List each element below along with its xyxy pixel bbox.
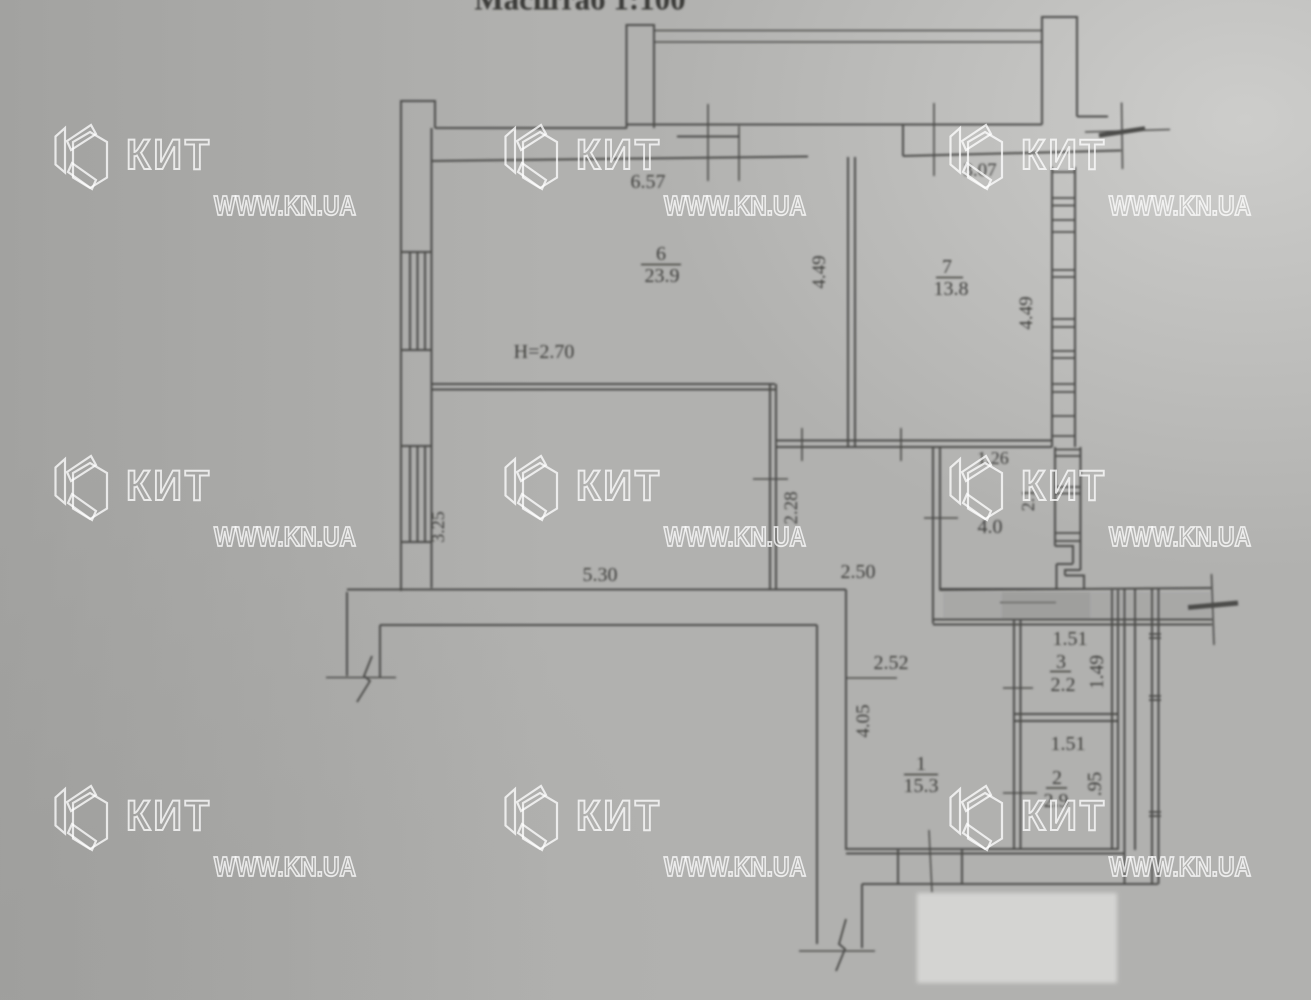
- dim tick x708: [707, 104, 709, 181]
- corridor top wall inner: [380, 625, 817, 677]
- wall between rooms 6 and 5 (double): [432, 384, 776, 390]
- lower-left outer corner: [346, 592, 348, 676]
- entrance door jambs: [898, 850, 962, 884]
- tick x901 on hallway wall: [900, 428, 902, 461]
- shaft cell rungs: [1055, 450, 1081, 542]
- vent rungs: [1149, 634, 1161, 816]
- alcove / room5 right wall (double): [770, 384, 776, 590]
- right vent shaft columns: [1125, 588, 1159, 884]
- shaft jog: [1055, 546, 1073, 589]
- left break dim line: [326, 677, 396, 679]
- svg-text:4.05: 4.05: [853, 704, 874, 737]
- corridor left walls: [816, 625, 818, 944]
- door tick room 3: [1003, 687, 1033, 689]
- door tick room4: [924, 517, 958, 519]
- balcony right wall: [1042, 17, 1077, 125]
- top wall inner room 7: [903, 151, 1121, 157]
- top wall outer right part: [627, 124, 1042, 126]
- divider rooms 3/2 (double): [1014, 714, 1118, 721]
- rooms 3/2 left wall (double): [1014, 620, 1021, 850]
- top-left wall step outer: [401, 101, 435, 591]
- svg-text:3: 3: [1056, 651, 1066, 673]
- dim tick x739: [738, 126, 740, 181]
- thick bottom wall of upper section: [940, 588, 1211, 590]
- svg-text:3.25: 3.25: [428, 511, 448, 543]
- balcony railing double line: [654, 31, 1042, 43]
- bottom break dim line: [799, 950, 875, 952]
- svg-text:13.8: 13.8: [934, 278, 969, 300]
- rooms 3/2 right wall (double): [1112, 590, 1118, 850]
- bottom break zigzag: [836, 919, 846, 971]
- corridor bottom wall: [846, 849, 1124, 854]
- right break extension line: [1212, 574, 1215, 645]
- window W2 left: [401, 446, 432, 542]
- svg-text:15.3: 15.3: [904, 775, 939, 797]
- svg-text:5.30: 5.30: [583, 564, 618, 586]
- svg-text:Н=2.70: Н=2.70: [514, 341, 575, 363]
- svg-text:1.51: 1.51: [1051, 733, 1086, 755]
- svg-text:6: 6: [656, 243, 666, 265]
- svg-text:1.51: 1.51: [1053, 628, 1088, 650]
- top right dimension thick tick: [1099, 129, 1145, 136]
- door tick room5-hallway: [753, 478, 788, 480]
- dim line 2.52: [846, 677, 897, 679]
- svg-text:1.49: 1.49: [1087, 655, 1108, 689]
- svg-text:4.0: 4.0: [978, 516, 1003, 538]
- balcony door jamb: [902, 125, 904, 157]
- room 4 bottom line: [940, 588, 1084, 590]
- dim tick x934: [933, 103, 935, 176]
- svg-text:2.28: 2.28: [781, 491, 802, 524]
- svg-text:2.52: 2.52: [874, 652, 909, 674]
- right window rungs: [1052, 172, 1075, 436]
- svg-text:2.2: 2.2: [1051, 674, 1076, 696]
- svg-text:2.50: 2.50: [841, 561, 876, 583]
- balcony left wall: [627, 25, 655, 128]
- svg-text:4.49: 4.49: [809, 255, 830, 288]
- svg-text:23.9: 23.9: [645, 265, 680, 287]
- wall between rooms 6 and 7: [848, 157, 855, 447]
- light patch bottom right: [917, 893, 1117, 983]
- room 4 left wall (double): [933, 447, 940, 624]
- thick wall inner line: [1000, 602, 1056, 604]
- top right extension line: [1121, 103, 1124, 170]
- tick at entrance: [929, 830, 932, 892]
- porch left wall: [861, 884, 863, 948]
- lower outer wall: [862, 883, 1158, 885]
- svg-text:7: 7: [942, 256, 952, 278]
- balcony window sill room6: [677, 136, 739, 138]
- top wall cap right end: [1077, 116, 1108, 118]
- right break (dim line + slash): [1188, 603, 1238, 608]
- room5 / hallway bottom wall line: [347, 589, 846, 591]
- hallway top wall / room7 bottom (double): [775, 441, 1052, 448]
- svg-text:1: 1: [916, 753, 926, 775]
- shaft jog outer: [1065, 570, 1084, 589]
- shaft cells right of room 4: [1055, 447, 1081, 570]
- top wall inner room 6: [432, 157, 809, 162]
- corridor left wall inner: [845, 590, 847, 851]
- svg-text:4.49: 4.49: [1016, 296, 1037, 329]
- door tick room 2: [1003, 792, 1037, 794]
- tick x802 on hallway wall: [801, 428, 803, 461]
- top right dimension line: [1085, 130, 1170, 133]
- svg-text:2: 2: [1052, 767, 1062, 789]
- left inner wall line: [431, 128, 433, 588]
- left break zigzag: [357, 656, 372, 702]
- right window strip rails room 7: [1052, 167, 1075, 447]
- window W1 left (mullions+caps): [401, 252, 432, 350]
- top wall outer room 6: [435, 127, 627, 129]
- svg-text:Масштаб 1:100: Масштаб 1:100: [474, 0, 685, 17]
